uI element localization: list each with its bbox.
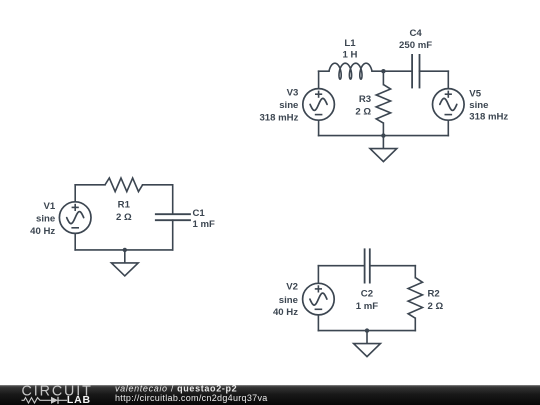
svg-text:318 mHz: 318 mHz (469, 111, 508, 122)
svg-text:40 Hz: 40 Hz (273, 307, 298, 318)
svg-text:LAB: LAB (67, 394, 91, 405)
svg-text:L1: L1 (344, 38, 356, 49)
svg-text:sine: sine (36, 213, 55, 224)
svg-text:2 Ω: 2 Ω (428, 301, 444, 312)
svg-text:C2: C2 (361, 289, 373, 300)
svg-text:1 mF: 1 mF (356, 301, 379, 312)
svg-text:R1: R1 (118, 200, 131, 211)
svg-text:1 H: 1 H (343, 50, 358, 61)
svg-text:V3: V3 (287, 87, 299, 98)
svg-text:250 mF: 250 mF (399, 40, 432, 51)
svg-text:318 mHz: 318 mHz (259, 113, 298, 124)
svg-text:C1: C1 (193, 208, 206, 219)
svg-text:sine: sine (279, 295, 298, 306)
svg-text:V5: V5 (469, 88, 481, 99)
svg-text:V1: V1 (43, 201, 55, 212)
svg-text:1 mF: 1 mF (193, 219, 216, 230)
svg-text:V2: V2 (286, 282, 298, 293)
svg-text:sine: sine (279, 100, 298, 111)
svg-text:R3: R3 (359, 94, 371, 105)
svg-text:http://circuitlab.com/cn2dg4ur: http://circuitlab.com/cn2dg4urq37va (115, 393, 268, 403)
svg-text:C4: C4 (409, 28, 422, 39)
svg-text:R2: R2 (428, 289, 440, 300)
svg-text:40 Hz: 40 Hz (30, 226, 55, 237)
svg-text:2 Ω: 2 Ω (355, 106, 371, 117)
svg-text:2 Ω: 2 Ω (116, 212, 132, 223)
svg-text:sine: sine (469, 100, 488, 111)
